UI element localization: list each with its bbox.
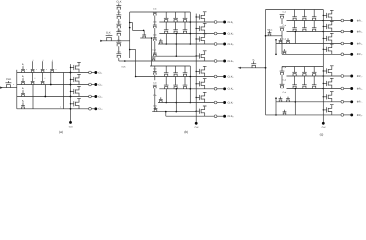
out3 transistor (b)	[160, 42, 163, 44]
block2 row1 transistor 2 (c)	[303, 74, 306, 76]
bus junction 3 (b)	[129, 49, 131, 51]
output buffer 4 (b)	[196, 55, 197, 56]
svg-text:CLK: CLK	[121, 66, 126, 69]
block2 top rail (b)	[150, 65, 190, 67]
input wire (c)	[241, 67, 266, 69]
out8 feed transistor (b)	[154, 110, 157, 112]
out3 feed vertical 2 (b)	[165, 34, 167, 45]
transistor B2 row2 (a)	[22, 83, 25, 85]
block2 row1 transistor 3 (c)	[313, 74, 316, 76]
svg-text:B₄: B₄	[22, 99, 24, 102]
bus junction 2 (b)	[129, 27, 131, 29]
block2 row2 wire (b)	[159, 88, 196, 90]
input 2 transistor MB1 (c)	[268, 34, 271, 36]
svg-text:(a): (a)	[59, 130, 63, 134]
bus tap rail1 (b)	[130, 11, 155, 13]
output buffer 4 (a)	[70, 103, 71, 104]
block1 chain transistor 1 (b)	[154, 14, 157, 16]
svg-text:ΦP₁₋: ΦP₁₋	[357, 19, 364, 22]
svg-text:a: a	[36, 69, 37, 71]
output buffer 2 (a)	[70, 79, 71, 80]
output buffer 2 (b)	[196, 28, 197, 29]
output terminal 8 (b)	[196, 115, 214, 117]
out7 feed vertical (c)	[294, 89, 296, 115]
svg-text:a: a	[32, 60, 33, 62]
out7 feed vertical 2 (b)	[165, 89, 167, 103]
block2 chain transistor 2 (b)	[154, 86, 157, 88]
transistor row1-3 (a)	[41, 71, 44, 73]
block2 chain wire b (b)	[154, 88, 156, 109]
output terminal 6 (b)	[196, 88, 214, 90]
svg-text:CL₂: CL₂	[98, 83, 102, 86]
bus junction 1 (b)	[129, 22, 131, 24]
svg-text:CLK: CLK	[69, 126, 74, 129]
block1 row2 transistor 2 (c)	[303, 29, 306, 31]
transistor B4 row4 (a)	[22, 107, 25, 109]
input junction (c)	[265, 67, 267, 69]
block1 chain wire a (c)	[281, 18, 283, 24]
out8 wire (b)	[166, 115, 196, 117]
buffer column (a)	[70, 64, 72, 121]
output buffer 1 (a)	[70, 67, 71, 68]
output buffer 3 (b)	[196, 38, 197, 39]
vertical wire x33 (a)	[32, 85, 34, 109]
output terminal 4 (b)	[196, 60, 214, 62]
svg-text:C₁b: C₁b	[153, 7, 157, 10]
input wire (b)	[101, 40, 130, 42]
out7 transistor 2 (c)	[287, 100, 290, 102]
svg-text:C₈b: C₈b	[153, 105, 157, 108]
output terminal 5 (c)	[323, 75, 341, 77]
out4 wire (b)	[125, 60, 196, 62]
bus to rail1 (c)	[266, 9, 283, 11]
output terminal 3 (a)	[71, 96, 89, 98]
svg-text:(b): (b)	[184, 130, 188, 134]
svg-text:b: b	[60, 106, 61, 109]
block2 chain wire a (b)	[154, 66, 156, 71]
row 1 wire (a)	[17, 72, 72, 74]
svg-text:CLK: CLK	[106, 31, 111, 34]
out8 gate feed wire (b)	[152, 111, 196, 113]
output buffer 8 (b)	[196, 111, 197, 112]
svg-text:a: a	[52, 60, 53, 62]
out7-out8 link vertical (c)	[275, 98, 277, 115]
block2 chain transistor 1 (c)	[280, 73, 283, 75]
svg-text:ΦP₃₋: ΦP₃₋	[357, 42, 364, 45]
output terminal 8 (c)	[323, 114, 341, 116]
output terminal 3 (c)	[323, 43, 341, 45]
svg-text:C₄b: C₄b	[153, 49, 157, 52]
svg-text:B₆: B₆	[253, 58, 255, 61]
out4 gate feed wire (b)	[152, 55, 196, 57]
block2 chain transistor 2 (c)	[280, 86, 283, 88]
output buffer 6 (c)	[323, 83, 324, 84]
svg-text:CLK₅: CLK₅	[228, 75, 234, 78]
svg-text:C₂a: C₂a	[283, 24, 287, 27]
svg-text:B₂: B₂	[22, 75, 24, 78]
block1 chain transistor 3 (b)	[154, 39, 157, 41]
left chain lower wire (b)	[118, 36, 120, 42]
row 3 wire (a)	[17, 96, 72, 98]
svg-text:a: a	[26, 69, 27, 71]
out4 transistor (b)	[152, 59, 155, 61]
out8 transistor (c)	[283, 113, 286, 115]
output buffer 8 (c)	[323, 109, 324, 110]
output terminal 1 (a)	[71, 72, 89, 74]
tap mid junction (b)	[143, 30, 145, 32]
block1 row2 transistor 1 (c)	[293, 29, 296, 31]
clock bus vertical (a)	[16, 70, 18, 109]
svg-text:CLK₃: CLK₃	[228, 43, 234, 46]
output terminal 2 (b)	[196, 33, 214, 35]
svg-text:a: a	[55, 69, 56, 71]
input 2 junction (c)	[265, 35, 267, 37]
bottom clock terminal (a)	[69, 121, 72, 124]
buffer column (b)	[195, 14, 197, 123]
block2 chain transistor 1 (b)	[154, 73, 157, 75]
block2 row1 transistor 3 (b)	[183, 74, 186, 76]
svg-text:a: a	[44, 78, 45, 80]
svg-text:CLK₈: CLK₈	[228, 115, 234, 118]
block1 chain wire c (b)	[154, 41, 156, 54]
svg-text:a: a	[46, 69, 47, 71]
svg-text:C₃b: C₃b	[153, 34, 157, 37]
input pass transistor (a)	[6, 85, 10, 88]
output buffer 5 (b)	[196, 71, 197, 72]
svg-text:C₁b: C₁b	[117, 11, 121, 14]
block2 row2 transistor 1 (c)	[293, 86, 296, 88]
block2 row2 transistor 1 (b)	[165, 87, 168, 89]
output buffer 3 (a)	[70, 91, 71, 92]
out4 transistor (c)	[283, 52, 286, 54]
svg-text:ΦP₈₋: ΦP₈₋	[357, 114, 364, 117]
svg-text:CLK: CLK	[194, 126, 199, 129]
input arrow (c)	[238, 67, 241, 69]
output terminal 4 (c)	[323, 53, 341, 55]
output terminal 2 (c)	[323, 31, 341, 33]
block1 row1 transistor 3 (b)	[183, 20, 186, 22]
block2 row2 transistor 2 (c)	[303, 86, 306, 88]
tap mid transistor (b)	[143, 36, 146, 38]
svg-text:CLK₁: CLK₁	[228, 21, 234, 24]
svg-text:C₁a: C₁a	[283, 10, 287, 13]
block1 right vertical (c)	[323, 20, 325, 22]
transistor row1-2 (a)	[31, 71, 34, 73]
svg-text:CLK₄: CLK₄	[228, 60, 234, 63]
svg-text:CLK₂: CLK₂	[228, 32, 234, 35]
buffer feed vertical (a)	[63, 73, 65, 109]
out7 wire (b)	[158, 102, 196, 104]
circuit (a): 4-phase divider	[0, 60, 102, 135]
block1 chain wire a (b)	[154, 16, 156, 26]
block1 row2 transistor 2 (b)	[174, 31, 177, 33]
block1 chain wire b (c)	[281, 31, 283, 36]
block2 chain wire b (c)	[281, 87, 283, 90]
left chain transistor 5 (b)	[117, 44, 120, 46]
block2 right vertical (c)	[323, 75, 325, 77]
top clock wire (b)	[118, 3, 120, 5]
out7 wire (c)	[276, 101, 323, 103]
output terminal 5 (b)	[196, 76, 214, 78]
block1 row2 wire (c)	[287, 31, 324, 33]
transistor row2-2 (a)	[31, 83, 34, 85]
block2 row1 transistor 2 (b)	[174, 74, 177, 76]
input 2 wire (c)	[266, 35, 283, 37]
block1 chain wire c (c)	[281, 36, 283, 55]
left chain transistor 3 (b)	[117, 26, 120, 28]
output terminal 6 (c)	[323, 88, 341, 90]
svg-text:a: a	[42, 60, 43, 62]
input wire (a)	[1, 87, 17, 89]
transistor row2-3 (a)	[41, 83, 44, 85]
block1 row1 transistor 1 (c)	[293, 18, 296, 20]
block2 row1 transistor 1 (c)	[293, 74, 296, 76]
svg-text:ΦP₄₋: ΦP₄₋	[357, 53, 364, 56]
block1 row1 transistor 2 (c)	[303, 18, 306, 20]
block1 top rail (b)	[155, 11, 191, 13]
svg-text:a: a	[34, 78, 35, 80]
output terminal 4 (a)	[71, 108, 89, 110]
svg-text:CLK: CLK	[116, 1, 121, 4]
svg-text:B₃: B₃	[22, 87, 24, 90]
out4 wire (c)	[282, 53, 323, 55]
svg-text:CL₃: CL₃	[98, 95, 102, 98]
input pass transistor Bk (c)	[252, 65, 255, 67]
block2 right vertical (b)	[189, 66, 191, 103]
circuit (b): 8-phase divider	[100, 1, 233, 135]
block1 row2 transistor 1 (b)	[165, 31, 168, 33]
output buffer 6 (b)	[196, 83, 197, 84]
svg-text:ΦP₂₋: ΦP₂₋	[357, 30, 364, 33]
output terminal 3 (b)	[196, 43, 214, 45]
bus tap low wire (b)	[130, 49, 136, 51]
left chain transistor 4 (b)	[117, 33, 120, 35]
output buffer 7 (b)	[196, 97, 197, 98]
row 4 wire (a)	[17, 108, 72, 110]
transistor B3 row3 (a)	[22, 95, 25, 97]
svg-text:C₃a: C₃a	[283, 37, 287, 40]
left chain transistor 6 (b)	[117, 55, 120, 57]
output terminal 2 (a)	[71, 84, 89, 86]
svg-text:B₁: B₁	[22, 63, 24, 66]
left chain transistor 1 (b)	[117, 7, 120, 9]
left chain transistor 2 (b)	[117, 16, 120, 18]
block1 chain transistor 2 (c)	[280, 29, 283, 31]
block2 row1 wire (c)	[287, 75, 324, 77]
bottom clock terminal (c)	[322, 122, 325, 125]
svg-text:C₆b: C₆b	[153, 81, 157, 84]
svg-text:CLK₆: CLK₆	[228, 88, 234, 91]
block1 right vertical (b)	[189, 12, 191, 44]
block1 row1 wire (b)	[159, 21, 196, 23]
out3 transistor 2 (c)	[287, 42, 290, 44]
input pass transistor (b)	[107, 37, 112, 40]
svg-text:C₆a: C₆a	[283, 78, 287, 81]
block1 chain wire b (b)	[154, 28, 156, 38]
out3-out4 link vertical (c)	[275, 40, 277, 55]
out3 transistor 1 (c)	[279, 42, 282, 44]
output buffer 5 (c)	[323, 70, 324, 71]
svg-text:CLK: CLK	[322, 126, 327, 129]
block2 row2 wire (c)	[287, 88, 324, 90]
svg-text:ΦP₅₋: ΦP₅₋	[357, 75, 364, 78]
out7 transistor (b)	[160, 101, 163, 103]
block1 row1 wire (c)	[287, 20, 324, 22]
block2 row1 transistor 1 (b)	[165, 74, 168, 76]
main bus vertical (c)	[265, 10, 267, 115]
output buffer 1 (b)	[196, 16, 197, 17]
svg-text:a: a	[13, 84, 14, 86]
out3 feed vertical (c)	[294, 32, 296, 44]
out7 feed vertical (b)	[175, 89, 177, 112]
svg-text:CLK: CLK	[6, 78, 11, 81]
block1 row1 transistor 1 (b)	[165, 20, 168, 22]
vertical wire x45.3 (a)	[44, 85, 46, 97]
svg-text:(c): (c)	[320, 132, 324, 136]
left bus vertical (b)	[129, 12, 131, 58]
output buffer 3 (c)	[323, 38, 324, 39]
transistor B1 row1 (a)	[22, 71, 25, 73]
block1 row1 transistor 2 (b)	[174, 20, 177, 22]
svg-text:C₂b: C₂b	[117, 21, 121, 24]
block2 row2 transistor 3 (c)	[313, 86, 316, 88]
svg-text:CL₁: CL₁	[98, 71, 102, 74]
vertical wire x50.8 (a)	[50, 73, 52, 85]
block1 chain transistor 1 (c)	[280, 16, 283, 18]
svg-text:CLK₇: CLK₇	[228, 101, 234, 104]
out3 wire (b)	[158, 43, 196, 45]
block1 row2 transistor 3 (c)	[313, 29, 316, 31]
out3 wire (c)	[276, 43, 323, 45]
block2 row2 transistor 3 (b)	[183, 87, 186, 89]
svg-text:ΦP₆₋: ΦP₆₋	[357, 87, 364, 90]
out8 feed drop (b)	[165, 112, 167, 117]
row 2 wire (a)	[17, 84, 72, 86]
block2 row1 wire (b)	[136, 76, 197, 78]
block1 row2 wire (b)	[159, 33, 196, 35]
block2 row2 transistor 2 (b)	[174, 87, 177, 89]
input terminal (a)	[0, 87, 3, 89]
bottom clock terminal (b)	[195, 122, 198, 125]
out3 feed vertical (b)	[175, 34, 177, 57]
output buffer 7 (c)	[323, 96, 324, 97]
svg-text:MB₁a: MB₁a	[267, 29, 273, 32]
block1 row1 transistor 3 (c)	[313, 18, 316, 20]
svg-text:C₇b: C₇b	[153, 94, 157, 97]
block2 chain wire a (c)	[281, 67, 283, 72]
svg-text:C₇a: C₇a	[283, 91, 287, 94]
svg-text:C₂b: C₂b	[153, 21, 157, 24]
svg-text:CL₄: CL₄	[98, 108, 102, 111]
output terminal 1 (b)	[196, 21, 214, 23]
output buffer 4 (c)	[323, 49, 324, 50]
out7 transistor 1 (c)	[279, 100, 282, 102]
svg-text:C₅b: C₅b	[117, 50, 121, 53]
svg-text:C₅b: C₅b	[153, 68, 157, 71]
bus tap mid wire (b)	[130, 22, 133, 24]
output terminal 7 (c)	[323, 101, 341, 103]
circuit (c): second-stage 8-phase divider	[238, 10, 364, 137]
left chain wire (b)	[118, 10, 120, 15]
output terminal 1 (c)	[323, 20, 341, 22]
output terminal 7 (b)	[196, 102, 214, 104]
tap mid out wire (b)	[140, 37, 151, 39]
block2 top rail (c)	[282, 66, 323, 68]
out4 feed transistor (b)	[154, 54, 157, 56]
block1 top rail (c)	[282, 9, 323, 11]
svg-text:ΦP₇₋: ΦP₇₋	[357, 101, 364, 104]
buffer column (c)	[322, 10, 324, 123]
output buffer 1 (c)	[323, 15, 324, 16]
transistor row1-4 (a)	[51, 71, 54, 73]
output buffer 2 (c)	[323, 26, 324, 27]
block1 row2 transistor 3 (b)	[183, 31, 186, 33]
out8 wire (c)	[266, 114, 324, 116]
input terminal (b)	[100, 40, 103, 42]
block1 chain transistor 2 (b)	[154, 26, 157, 28]
